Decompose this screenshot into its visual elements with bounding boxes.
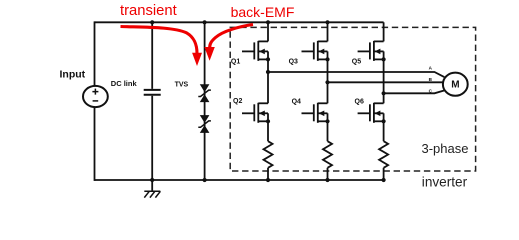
svg-text:back-EMF: back-EMF (231, 4, 295, 20)
annotation arrow transient (121, 27, 203, 67)
svg-text:Q4: Q4 (292, 98, 301, 105)
transistor Q1 (242, 41, 270, 62)
svg-text:Q1: Q1 (231, 58, 240, 65)
wire Q2 drain from phase A (267, 72, 269, 103)
transistor Q6 (358, 103, 386, 124)
wire Q1 source to phase A (267, 59, 269, 72)
wire Q4 drain from phase B (327, 82, 329, 103)
node dot top rail / Q1 (266, 20, 270, 24)
wire DC link top (151, 22, 153, 89)
transistor Q3 (302, 41, 330, 62)
voltage source V1 (Input) (83, 86, 108, 107)
inverter dashed box (230, 27, 475, 171)
wire Q5 drain from rail (383, 22, 385, 41)
svg-text:Q3: Q3 (289, 58, 298, 65)
wire DC link bottom (151, 96, 153, 180)
capacitor C1 DC link (144, 90, 161, 95)
svg-text:Q2: Q2 (233, 98, 242, 105)
svg-text:transient: transient (120, 3, 177, 19)
node dot top rail / DC link (150, 20, 154, 24)
wire phase A (268, 72, 444, 77)
motor M (443, 73, 468, 96)
svg-text:Q6: Q6 (355, 98, 364, 105)
svg-text:inverter: inverter (422, 175, 468, 190)
wire bottom rail (95, 179, 384, 181)
transistor Q5 (358, 41, 386, 62)
transistor Q2 (242, 103, 270, 124)
wire Q3 drain from rail (327, 22, 329, 41)
wire Q5 source to phase C (383, 59, 385, 93)
node dot top rail / Q3 (325, 20, 329, 24)
svg-text:3-phase: 3-phase (422, 141, 469, 156)
node dot phase A (266, 70, 270, 74)
svg-text:Q5: Q5 (352, 58, 361, 65)
resistor R2 (323, 141, 332, 168)
TVS diode D2 (bidirectional) (198, 115, 211, 133)
svg-text:Input: Input (60, 69, 86, 81)
node dot bottom rail / TVS (203, 178, 207, 182)
resistor R3 (379, 141, 388, 168)
wire top rail (95, 21, 384, 23)
wire left vertical lower (94, 107, 96, 181)
wire left vertical upper (94, 21, 96, 86)
wire Q1 drain from rail (267, 22, 269, 41)
node dot top rail / TVS (203, 20, 207, 24)
TVS diode D1 (bidirectional) (198, 84, 211, 102)
wire phase B (328, 81, 444, 83)
wire Q3 source to phase B (327, 59, 329, 82)
wire TVS vertical (204, 22, 206, 180)
svg-text:M: M (451, 80, 459, 91)
wire Q6 source down (383, 121, 385, 141)
node dot bottom rail / R1 (266, 178, 270, 182)
wire phase C (384, 90, 445, 93)
resistor R1 (264, 141, 273, 168)
node dot bottom rail / R3 (382, 178, 386, 182)
svg-text:A: A (429, 66, 433, 71)
annotation arrow back-EMF (204, 25, 253, 61)
node dot bottom rail / ground (150, 178, 154, 182)
node dot bottom rail / R2 (325, 178, 329, 182)
wire R3 to bottom rail (383, 168, 385, 180)
svg-text:DC link: DC link (111, 79, 138, 88)
wire Q4 source down (327, 121, 329, 141)
ground (144, 180, 160, 198)
transistor Q4 (302, 103, 330, 124)
node dot phase C (382, 91, 386, 95)
node dot phase B (325, 80, 329, 84)
wire Q6 drain from phase C (383, 93, 385, 103)
wire Q2 source down (267, 121, 269, 141)
svg-text:TVS: TVS (175, 81, 189, 88)
wire R2 to bottom rail (327, 168, 329, 180)
wire R1 to bottom rail (267, 168, 269, 180)
